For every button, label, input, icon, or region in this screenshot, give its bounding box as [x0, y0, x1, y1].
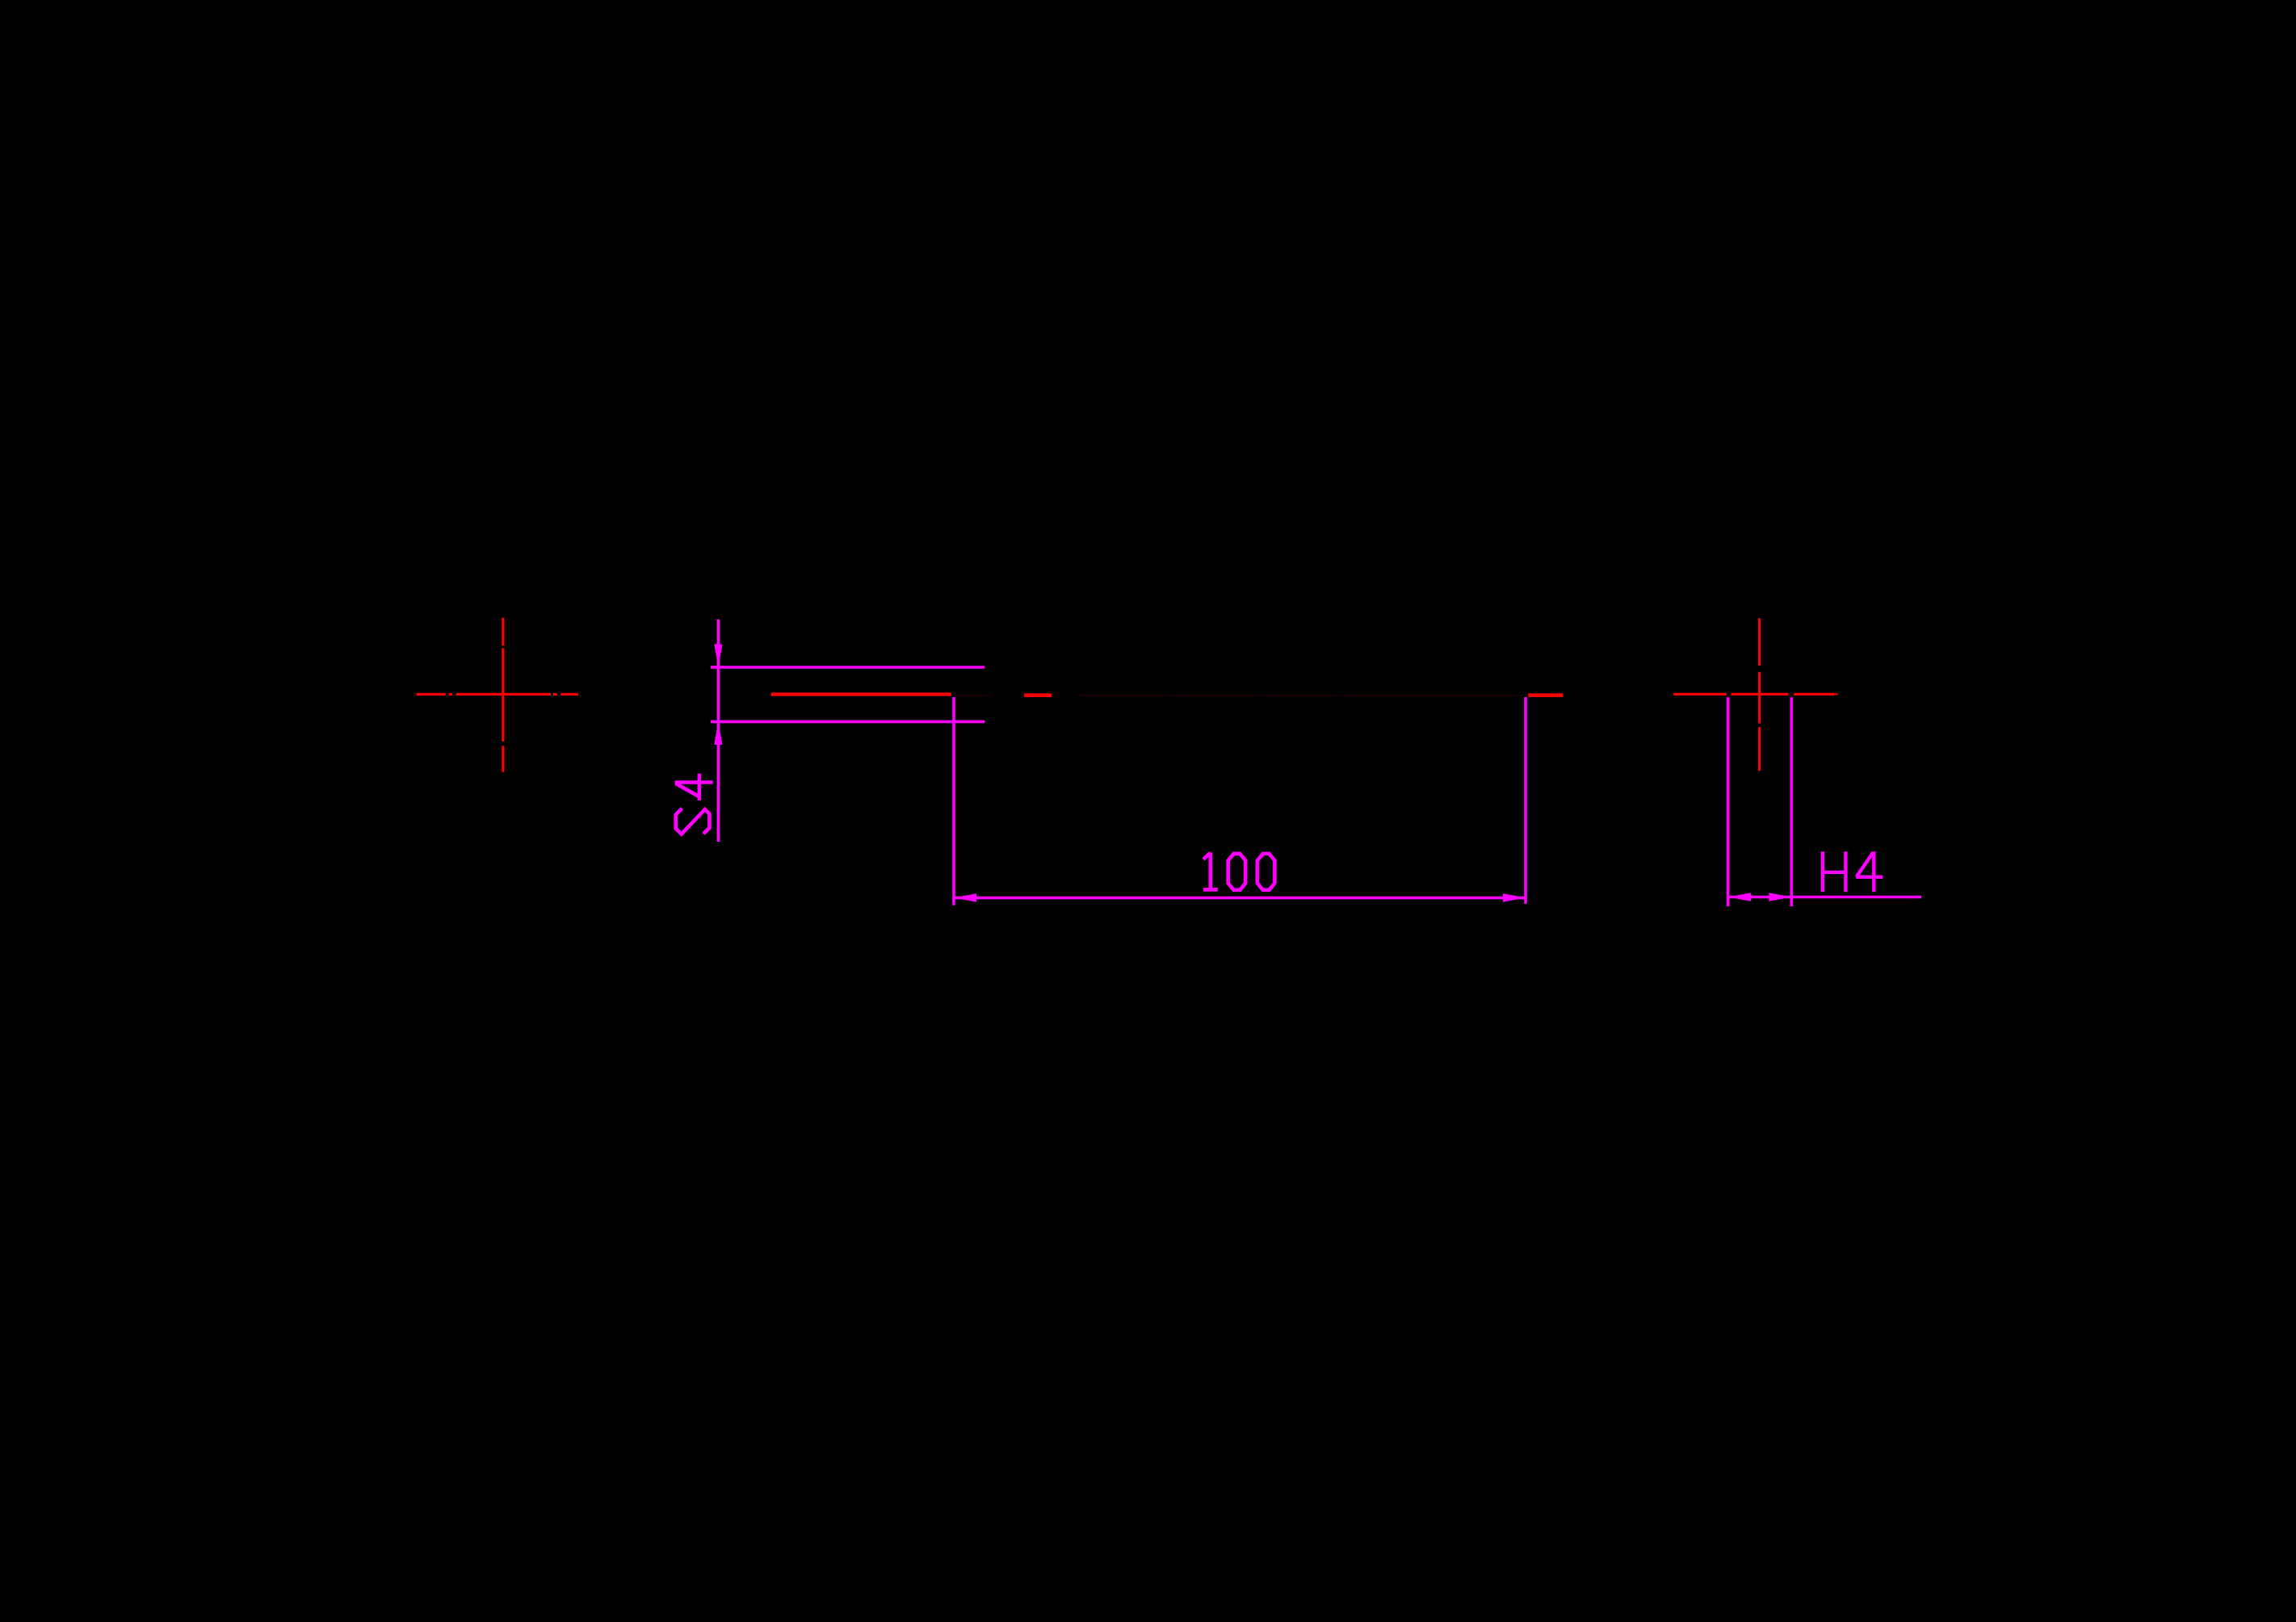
- S4 extension line top: [711, 666, 984, 669]
- H4 text: [1823, 851, 1883, 892]
- center mark right: [1673, 618, 1838, 771]
- 100 dimension line: [954, 897, 1526, 900]
- S4 arrow down: [714, 645, 722, 667]
- H4 dimension line: [1728, 896, 1921, 899]
- dimension H4: [1728, 697, 1921, 906]
- center mark left: [417, 618, 578, 772]
- 100 arrow left: [954, 893, 976, 902]
- S4 text (rotated): [675, 774, 713, 834]
- H4 extension line right: [1790, 697, 1794, 906]
- centerline red solid segment: [771, 692, 951, 695]
- centerline red dash 1: [1024, 693, 1051, 697]
- S4 extension line bottom: [711, 721, 984, 724]
- 100 arrow right: [1503, 893, 1526, 902]
- 100 extension line right: [1524, 697, 1527, 904]
- centerline red dash 2: [1528, 693, 1563, 697]
- dimension 100: [954, 697, 1526, 906]
- S4 arrow up: [714, 722, 722, 745]
- centerline dim dark-red segments: [955, 695, 1522, 696]
- H4 arrow pointing left: [1728, 893, 1751, 901]
- S4 dimension line: [717, 620, 720, 842]
- H4 arrow pointing right: [1769, 893, 1791, 901]
- dimension S4: [711, 620, 984, 842]
- 100 extension line left: [952, 697, 955, 906]
- H4 extension line left: [1727, 697, 1730, 906]
- 100 text: [1203, 852, 1275, 890]
